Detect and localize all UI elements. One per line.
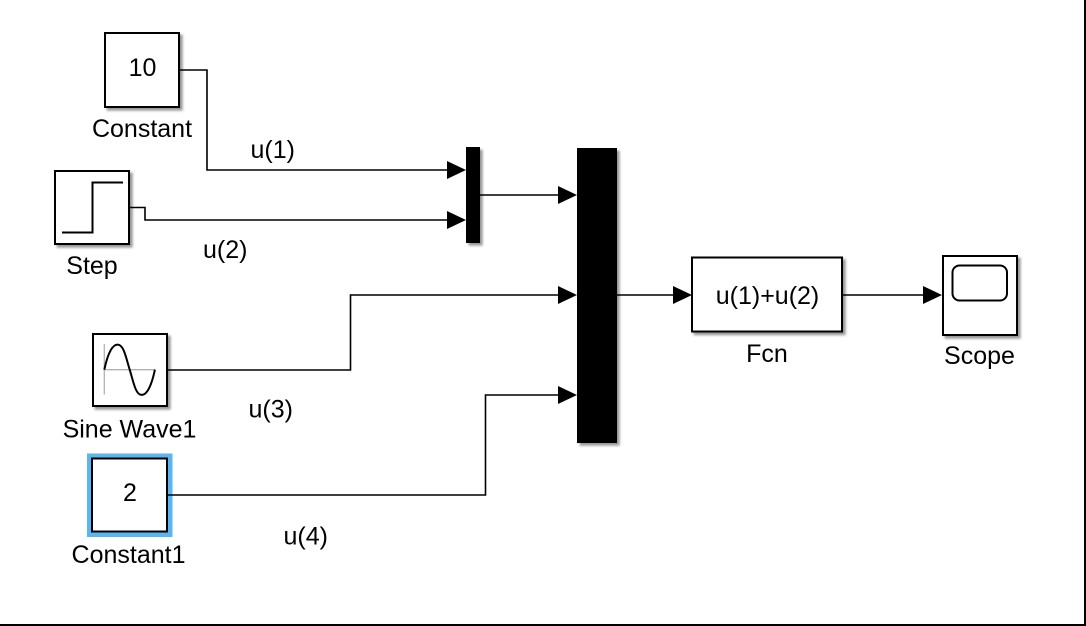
svg-text:u(4): u(4) [284,523,328,551]
svg-text:u(1): u(1) [251,136,295,164]
block Scope [943,256,1017,335]
svg-text:Constant1: Constant1 [72,541,186,569]
arrowhead into Mux1 port 3 [558,386,577,404]
arrowhead into Mux port 2 [447,211,466,229]
block Fcn [692,258,842,332]
svg-text:Constant: Constant [92,115,192,143]
block Constant [105,33,179,107]
svg-text:u(1)+u(2): u(1)+u(2) [716,282,820,310]
block Sine Wave1 [93,334,167,406]
arrowhead into Mux1 port 1 [558,186,577,204]
wire Mux to Mux1 port 1 [480,194,560,196]
svg-text:Fcn: Fcn [746,340,788,368]
arrowhead into Mux1 port 2 [558,286,577,304]
block Step [55,171,129,244]
wire u(1): Constant to Mux port 1 [180,70,449,170]
svg-text:2: 2 [123,479,137,507]
svg-text:10: 10 [129,54,157,82]
svg-text:Scope: Scope [944,342,1015,370]
arrowhead into Mux port 1 [447,161,466,179]
wire Mux1 to Fcn [617,294,675,296]
svg-text:u(3): u(3) [249,396,293,424]
arrowhead into Fcn [673,286,692,304]
svg-text:u(2): u(2) [203,236,247,264]
mux Mux (small) [466,147,480,243]
svg-text:Step: Step [66,252,117,280]
wire u(2): Step to Mux port 2 [130,208,449,221]
wire u(3): Sine Wave1 to Mux1 port 2 [168,295,560,370]
mux Mux1 (large) [577,148,617,443]
svg-text:Sine Wave1: Sine Wave1 [63,416,197,444]
wire Fcn to Scope [842,294,925,296]
wire u(4): Constant1 to Mux1 port 3 [168,395,560,495]
arrowhead into Scope [923,286,942,304]
block Constant1 (selected) [87,454,173,538]
